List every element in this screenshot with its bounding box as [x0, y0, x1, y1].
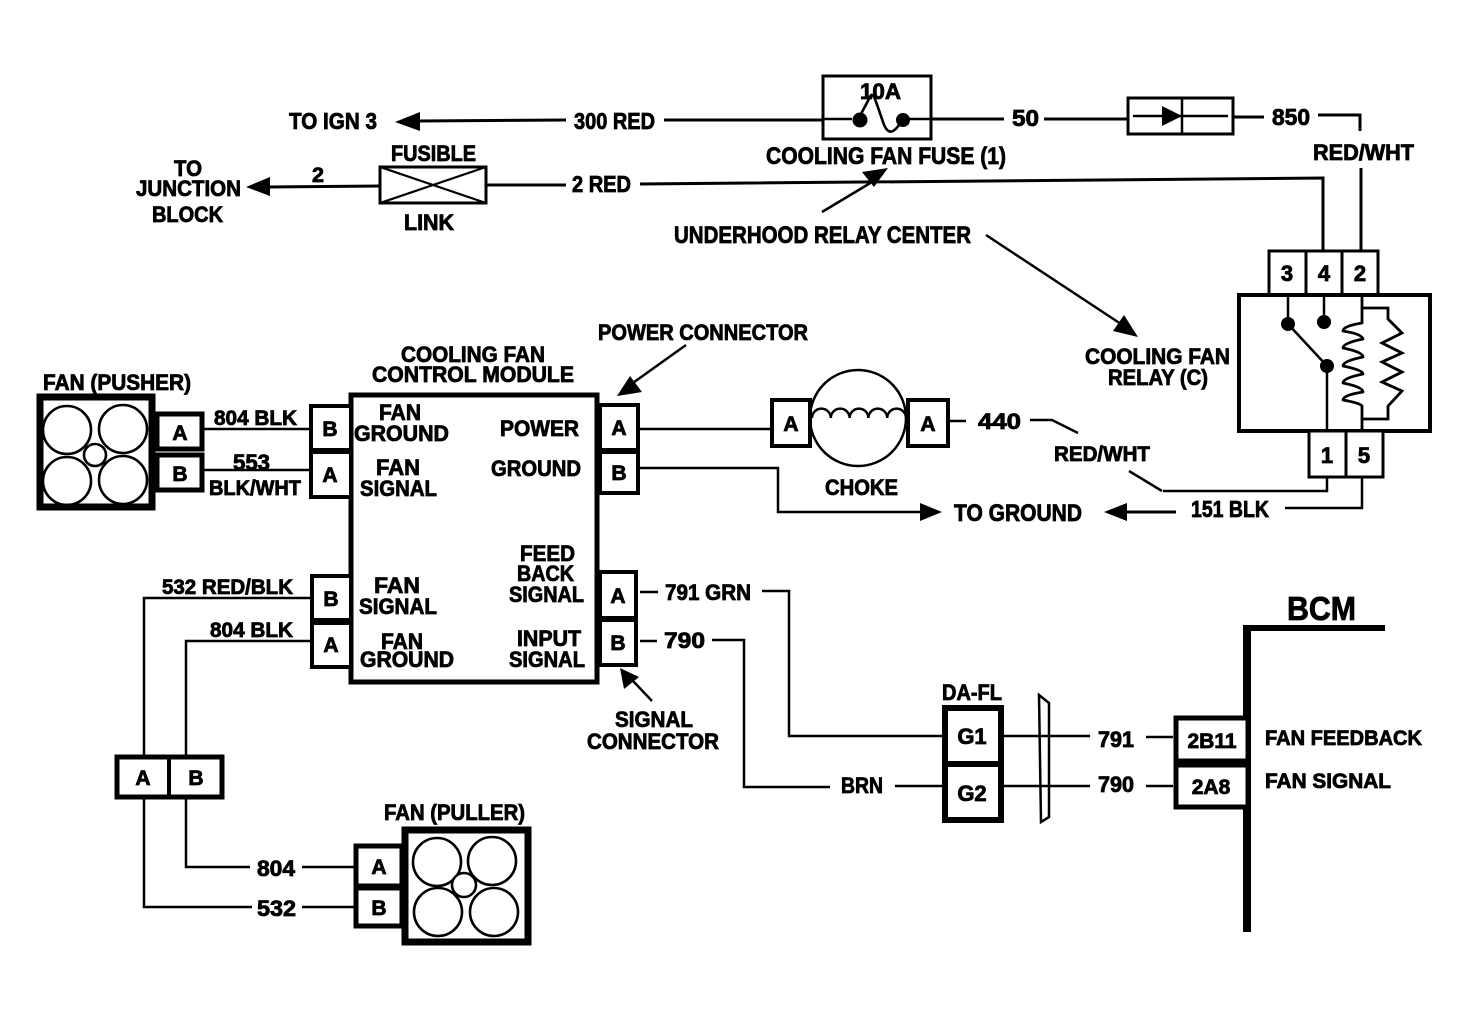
fan pusher connector pin A	[157, 414, 202, 449]
svg-text:RED/WHT: RED/WHT	[1054, 443, 1150, 466]
relay coil	[1343, 295, 1363, 431]
wire 532 to puller B	[302, 906, 355, 909]
svg-text:10A: 10A	[860, 79, 901, 104]
module right connector pin A (power)	[600, 405, 638, 450]
module left connector pin B (fan signal lower)	[312, 576, 351, 620]
svg-text:SIGNAL: SIGNAL	[360, 476, 437, 501]
svg-text:FAN SIGNAL: FAN SIGNAL	[1265, 770, 1391, 793]
label FAN FEEDBACK	[1265, 727, 1422, 750]
svg-text:151 BLK: 151 BLK	[1191, 496, 1269, 522]
svg-text:532 RED/BLK: 532 RED/BLK	[162, 576, 293, 599]
module right connector pin B (input)	[600, 620, 636, 665]
module internal pin labels	[354, 400, 585, 672]
svg-text:DA-FL: DA-FL	[942, 680, 1002, 705]
svg-text:790: 790	[664, 628, 705, 653]
wire label 2	[312, 164, 324, 187]
connector DA-FL pins G1 G2	[945, 708, 1001, 820]
svg-text:RED/WHT: RED/WHT	[1313, 140, 1415, 165]
label DA-FL	[942, 680, 1002, 705]
wire label 440	[978, 409, 1021, 434]
svg-text:2 RED: 2 RED	[572, 171, 631, 197]
wire module feedback A to 791 GRN	[640, 591, 658, 594]
wire label 804 BLK	[214, 407, 297, 430]
label COOLING FAN FUSE (1)	[766, 143, 1006, 170]
svg-text:POWER CONNECTOR: POWER CONNECTOR	[598, 320, 808, 345]
svg-text:JUNCTION: JUNCTION	[136, 176, 241, 201]
svg-text:4: 4	[1318, 261, 1331, 286]
svg-text:FAN (PUSHER): FAN (PUSHER)	[43, 370, 191, 395]
wire 553 BLK/WHT fan pusher to module	[204, 469, 311, 472]
svg-text:BCM: BCM	[1287, 590, 1356, 627]
svg-text:BLOCK: BLOCK	[152, 202, 223, 227]
svg-text:GROUND: GROUND	[491, 456, 581, 481]
wire 532 RED/BLK from module B down	[144, 598, 312, 757]
wire 2 to fusible link	[268, 186, 381, 187]
wire label 804	[257, 856, 296, 881]
svg-text:FAN (PULLER): FAN (PULLER)	[384, 800, 525, 825]
arrow underhood relay center to fuse	[822, 168, 888, 212]
svg-text:B: B	[610, 632, 625, 655]
svg-text:B: B	[172, 463, 187, 486]
wire 804 below connector to fan puller A	[186, 797, 250, 867]
wire 790 run to BRN	[712, 640, 830, 787]
wire label 532	[257, 896, 296, 921]
svg-text:SIGNAL: SIGNAL	[509, 582, 584, 607]
svg-text:G2: G2	[957, 781, 986, 806]
node TO JUNCTION BLOCK label	[136, 156, 241, 227]
fan pusher connector pin B	[157, 455, 202, 490]
inline connector A B (fan harness)	[117, 757, 222, 797]
svg-text:A: A	[920, 413, 935, 436]
arrow 151 BLK to ground	[1104, 503, 1176, 521]
module left connector pin A (fan signal)	[311, 452, 351, 497]
svg-text:A: A	[172, 422, 187, 445]
svg-text:532: 532	[257, 896, 296, 921]
svg-text:850: 850	[1272, 104, 1310, 130]
wire 804 BLK from module A down	[186, 641, 312, 757]
svg-text:440: 440	[978, 409, 1021, 434]
svg-text:FAN FEEDBACK: FAN FEEDBACK	[1265, 727, 1422, 750]
fusible link	[380, 141, 486, 235]
node TO IGN 3 label	[289, 108, 377, 134]
label SIGNAL CONNECTOR	[587, 707, 719, 754]
svg-text:BRN: BRN	[841, 773, 883, 798]
svg-text:B: B	[323, 588, 338, 611]
wire 300 RED left segment	[418, 120, 566, 121]
svg-text:2B11: 2B11	[1187, 730, 1236, 753]
wire relay pin1 down	[1163, 478, 1327, 491]
label FAN (PUSHER)	[43, 370, 191, 395]
fan pusher motor	[40, 397, 152, 507]
wire 804 to puller A	[302, 866, 355, 869]
svg-text:300 RED: 300 RED	[574, 108, 655, 134]
module left connector pin A (fan ground lower)	[312, 623, 351, 667]
svg-text:B: B	[322, 418, 337, 441]
wire label 791 GRN	[665, 580, 751, 605]
svg-text:B: B	[611, 462, 626, 485]
wire 791 to 2B11	[1146, 736, 1173, 739]
wire 790 to 2A8	[1146, 785, 1173, 788]
svg-text:A: A	[611, 417, 626, 440]
svg-text:B: B	[188, 767, 203, 790]
wire label 553 BLK/WHT	[209, 450, 301, 500]
svg-text:CONTROL MODULE: CONTROL MODULE	[372, 362, 574, 387]
wire 2 RED left	[486, 184, 566, 187]
connector with diode symbol	[1128, 98, 1233, 134]
label BCM	[1287, 590, 1356, 627]
relay connector pins 3 4 2	[1269, 251, 1378, 295]
BCM pin 2A8	[1176, 765, 1248, 807]
BCM boundary line	[1243, 625, 1385, 932]
connector plate	[1039, 695, 1049, 822]
svg-text:CONNECTOR: CONNECTOR	[587, 729, 719, 754]
relay coil parallel resistor	[1362, 308, 1402, 419]
wire label 804 BLK lower	[210, 619, 293, 642]
svg-text:5: 5	[1358, 443, 1370, 468]
wire choke to 440	[948, 420, 966, 423]
svg-text:TO GROUND: TO GROUND	[954, 500, 1082, 527]
label FAN SIGNAL	[1265, 770, 1391, 793]
wire G2 to 790	[1002, 785, 1090, 788]
wire label 151 BLK	[1191, 496, 1269, 522]
label FAN (PULLER)	[384, 800, 525, 825]
svg-text:GROUND: GROUND	[360, 647, 454, 672]
svg-text:POWER: POWER	[500, 416, 579, 441]
label CHOKE	[825, 475, 898, 500]
svg-text:TO IGN 3: TO IGN 3	[289, 108, 377, 134]
arrow module ground to TO GROUND	[638, 468, 942, 521]
fan puller connector pin A	[356, 846, 402, 886]
wire G1 to 791	[1002, 735, 1090, 738]
svg-text:804 BLK: 804 BLK	[210, 619, 293, 642]
svg-text:2A8: 2A8	[1192, 776, 1231, 799]
svg-text:804 BLK: 804 BLK	[214, 407, 297, 430]
wire RED/WHT diagonal to pin1	[1129, 471, 1162, 491]
svg-text:SIGNAL: SIGNAL	[359, 594, 437, 619]
svg-text:553: 553	[233, 450, 270, 475]
wire 50 right	[1044, 118, 1129, 121]
svg-text:2: 2	[1354, 261, 1366, 286]
svg-text:A: A	[610, 585, 625, 608]
module COOLING FAN CONTROL MODULE box	[351, 395, 597, 682]
wire module input B to 790	[640, 640, 657, 643]
svg-text:RELAY (C): RELAY (C)	[1108, 365, 1208, 390]
svg-text:2: 2	[312, 164, 324, 187]
label UNDERHOOD RELAY CENTER	[674, 222, 971, 249]
svg-text:A: A	[322, 464, 337, 487]
wire label BRN	[841, 773, 883, 798]
wire label RED/WHT mid	[1054, 443, 1150, 466]
svg-text:3: 3	[1281, 261, 1293, 286]
svg-text:791: 791	[1098, 727, 1134, 752]
wire 532 below connector to fan puller B	[144, 797, 252, 907]
svg-text:A: A	[323, 634, 338, 657]
svg-text:A: A	[783, 413, 798, 436]
svg-text:50: 50	[1012, 105, 1039, 131]
svg-text:A: A	[135, 767, 150, 790]
label COOLING FAN RELAY (C)	[1085, 344, 1230, 390]
label TO GROUND	[954, 500, 1082, 527]
svg-text:UNDERHOOD RELAY CENTER: UNDERHOOD RELAY CENTER	[674, 222, 971, 249]
wire 2 RED long run to relay pin 4	[640, 178, 1323, 252]
wire 850 left	[1233, 116, 1264, 119]
svg-text:791 GRN: 791 GRN	[665, 580, 751, 605]
svg-text:790: 790	[1098, 772, 1134, 797]
svg-text:BLK/WHT: BLK/WHT	[209, 477, 301, 500]
wire label 850	[1272, 104, 1310, 130]
module right connector pin B (ground)	[600, 452, 638, 493]
svg-text:G1: G1	[957, 724, 986, 749]
wire 300 RED right segment	[664, 119, 824, 122]
svg-text:804: 804	[257, 856, 296, 881]
choke connector pin A left	[772, 400, 810, 446]
wire label 790	[664, 628, 705, 653]
wire relay pin5 down to 151 BLK	[1285, 478, 1362, 508]
svg-text:LINK: LINK	[404, 210, 454, 235]
relay connector pins 1 5	[1309, 431, 1383, 477]
relay COOLING FAN RELAY (C) box	[1239, 295, 1430, 431]
label COOLING FAN CONTROL MODULE	[372, 342, 574, 387]
module left connector pin B (fan ground)	[311, 406, 351, 450]
wire label RED/WHT	[1313, 140, 1415, 165]
BCM pin 2B11	[1176, 718, 1248, 761]
svg-text:CHOKE: CHOKE	[825, 475, 898, 500]
svg-text:SIGNAL: SIGNAL	[509, 647, 585, 672]
wire label 300 RED	[574, 108, 655, 134]
wire label 790 lower	[1098, 772, 1134, 797]
wire module power to choke	[638, 428, 772, 431]
wire 50 left	[931, 118, 1004, 121]
wire 440 diagonal	[1030, 420, 1078, 433]
arrow underhood relay center to relay	[986, 235, 1138, 337]
svg-text:B: B	[371, 897, 386, 920]
choke connector pin A right	[908, 400, 948, 446]
fan puller connector pin B	[356, 888, 402, 926]
wire RED/WHT down to relay pin 2	[1360, 168, 1363, 252]
svg-text:GROUND: GROUND	[354, 421, 449, 446]
svg-text:FUSIBLE: FUSIBLE	[391, 141, 476, 166]
module right connector pin A (feedback)	[600, 572, 636, 618]
wire BRN to G2	[895, 785, 944, 788]
arrow power connector	[617, 345, 686, 396]
wire label 791	[1098, 727, 1134, 752]
arrow to IGN 3	[395, 112, 420, 131]
svg-text:1: 1	[1321, 443, 1333, 468]
wire label 50	[1012, 105, 1039, 131]
fan puller motor	[405, 830, 528, 942]
arrow to junction block	[246, 177, 270, 196]
wire 804 BLK fan pusher to module	[204, 428, 311, 431]
fuse COOLING FAN FUSE (1) 10A	[823, 76, 931, 139]
wire 850 elbow down	[1318, 115, 1360, 131]
label POWER CONNECTOR	[598, 320, 808, 345]
wire 791 GRN run to G1	[762, 591, 944, 736]
relay switch contacts	[1281, 295, 1334, 431]
arrow signal connector	[620, 668, 652, 701]
wire label 532 RED/BLK	[162, 576, 293, 599]
choke	[810, 370, 906, 466]
svg-text:A: A	[371, 856, 386, 879]
svg-text:COOLING FAN FUSE (1): COOLING FAN FUSE (1)	[766, 143, 1006, 170]
wire label 2 RED	[572, 171, 631, 197]
